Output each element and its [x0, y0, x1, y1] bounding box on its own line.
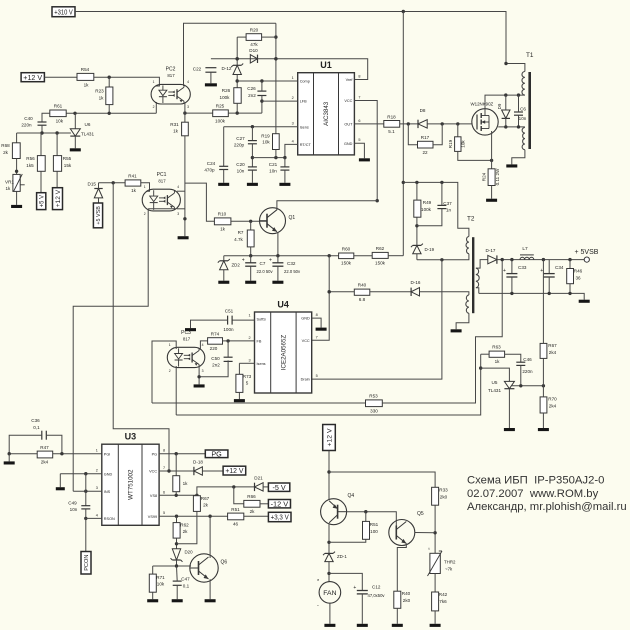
- wire C50 bottom lead: [199, 360, 228, 376]
- wire U4 GND lead: [312, 318, 321, 328]
- svg-text:R41: R41: [128, 174, 137, 179]
- wire R61 node row: [66, 112, 156, 115]
- svg-text:1: 1: [292, 76, 294, 80]
- IC U3: [96, 432, 165, 526]
- svg-text:1: 1: [169, 343, 171, 347]
- resistor R17: [418, 135, 434, 155]
- svg-text:2: 2: [248, 336, 250, 340]
- resistor R73: [236, 374, 252, 392]
- transistor Q5: [389, 511, 424, 546]
- wire R46 bottom lead: [569, 284, 571, 294]
- wire pin6 row: [159, 494, 198, 497]
- svg-text:4: 4: [292, 139, 294, 143]
- wire U3 GND row: [60, 472, 102, 475]
- wire U1 GND lead: [354, 143, 364, 158]
- wire C49 bottom lead: [84, 509, 87, 520]
- resistor R60: [339, 247, 354, 266]
- svg-text:R40: R40: [402, 591, 411, 596]
- svg-text:PGI: PGI: [104, 452, 111, 456]
- wire R41 to PC1 pin1: [141, 183, 150, 191]
- wire C47 top lead: [176, 566, 179, 581]
- wire R18 to D8: [400, 122, 418, 125]
- svg-text:-12 V: -12 V: [271, 499, 289, 508]
- capacitor C49: [68, 501, 90, 513]
- wire FAN bottom lead: [329, 603, 331, 624]
- diode D15: [94, 189, 102, 198]
- svg-text:PC2: PC2: [166, 67, 176, 73]
- wire R10 to Q1 base: [231, 220, 267, 223]
- wire R51b top lead: [365, 512, 367, 522]
- resistor R10: [214, 212, 231, 232]
- IC U4: [248, 300, 317, 394]
- svg-text:Схема ИБП IP-P350AJ2-0: Схема ИБП IP-P350AJ2-0: [467, 475, 604, 487]
- wire Q5 collector row: [415, 532, 435, 534]
- svg-text:2: 2: [144, 212, 146, 216]
- svg-text:10k: 10k: [262, 140, 270, 145]
- wire C34 top lead: [548, 260, 550, 274]
- wire C6 bottom lead: [518, 115, 520, 127]
- svg-text:22.0 50v: 22.0 50v: [257, 269, 274, 274]
- wire C24 top lead: [223, 127, 225, 167]
- ground U1 ground: [359, 158, 370, 161]
- svg-text:C36: C36: [31, 418, 40, 423]
- resistor R25: [213, 104, 229, 124]
- svg-text:C50: C50: [211, 356, 220, 361]
- svg-text:FAN: FAN: [323, 590, 336, 597]
- svg-text:R26: R26: [222, 88, 231, 93]
- capacitor C26: [247, 86, 266, 98]
- zener D12: [222, 64, 244, 75]
- svg-text:+: +: [503, 268, 506, 274]
- wire Q1 collector: [277, 201, 377, 210]
- svg-text:C22: C22: [193, 67, 202, 72]
- wire T2 sec bottom lead: [476, 288, 479, 294]
- ground PC3 ground: [194, 384, 205, 387]
- svg-text:2k0: 2k0: [440, 495, 448, 500]
- svg-text:VCC: VCC: [149, 470, 157, 474]
- wire sec return row: [479, 292, 584, 300]
- diode D9: [502, 110, 510, 118]
- wire D16 to T2 aux: [420, 292, 469, 295]
- wire U3 pin4 row: [86, 517, 102, 519]
- svg-text:1k: 1k: [183, 481, 189, 486]
- svg-text:1k: 1k: [84, 82, 90, 87]
- wire drain lead: [485, 93, 525, 108]
- svg-text:D20: D20: [185, 550, 194, 555]
- svg-text:+12 V: +12 V: [225, 466, 243, 475]
- wire D15 row: [99, 181, 126, 184]
- wire R62b bottom lead: [175, 538, 178, 549]
- svg-text:R10: R10: [218, 212, 227, 217]
- resistor R55: [53, 156, 71, 172]
- power label PG: [205, 449, 228, 458]
- capacitor C36: [31, 418, 46, 440]
- shunt regulator U6 TL431: [70, 113, 94, 148]
- svg-text:R61: R61: [54, 104, 63, 109]
- wire gate row: [427, 122, 472, 125]
- svg-text:Isens: Isens: [300, 125, 309, 129]
- wire C12 bottom lead: [361, 594, 363, 624]
- svg-text:U3: U3: [125, 432, 137, 442]
- wire U3 pin3 row: [73, 490, 102, 493]
- svg-text:-: -: [317, 603, 319, 609]
- wire C33 bottom lead: [511, 277, 513, 293]
- zener D20: [171, 549, 183, 562]
- svg-text:10n: 10n: [519, 116, 527, 121]
- wire R62b top lead: [176, 516, 178, 522]
- wire R19b top lead: [457, 124, 459, 137]
- svg-text:36: 36: [575, 276, 581, 281]
- svg-text:8: 8: [358, 75, 360, 79]
- svg-text:2: 2: [96, 469, 98, 473]
- svg-text:0,1: 0,1: [183, 584, 190, 589]
- wire PC2 pin2 lead: [155, 102, 156, 113]
- ground U4 ground: [316, 328, 327, 331]
- svg-text:U6: U6: [85, 122, 91, 127]
- zener D19: [411, 244, 423, 254]
- wire VCC feed vertical: [312, 256, 331, 341]
- svg-text:R66: R66: [247, 494, 256, 499]
- wire R67b bottom jog: [177, 511, 197, 543]
- svg-text:L7: L7: [522, 246, 528, 252]
- svg-text:7: 7: [163, 466, 165, 470]
- svg-text:1k: 1k: [6, 186, 12, 191]
- wire C51 right lead: [232, 319, 254, 321]
- svg-text:4: 4: [187, 80, 189, 84]
- svg-text:100k: 100k: [421, 207, 432, 212]
- wire PCON lead: [85, 518, 87, 551]
- svg-text:R74: R74: [211, 331, 220, 336]
- svg-text:T2: T2: [467, 216, 475, 223]
- capacitor C21: [269, 162, 290, 174]
- svg-text:2: 2: [292, 96, 294, 100]
- ground U6 ground: [70, 148, 81, 151]
- diode D8: [418, 108, 427, 128]
- capacitor C20: [236, 162, 257, 174]
- resistor R31: [170, 122, 188, 136]
- wire C6 top lead: [518, 95, 520, 112]
- resistor R40a: [354, 283, 370, 303]
- svg-text:10k: 10k: [56, 118, 64, 123]
- resistor R53: [366, 394, 383, 414]
- svg-text:C24: C24: [207, 161, 216, 166]
- svg-text:1: 1: [248, 314, 250, 318]
- svg-text:GND: GND: [104, 472, 113, 476]
- capacitor C37: [437, 201, 452, 213]
- svg-text:Comp: Comp: [300, 80, 310, 84]
- wire R19a bottom lead: [275, 150, 277, 158]
- resistor R7: [234, 230, 254, 247]
- wire R56 top lead: [40, 133, 42, 156]
- optocoupler PC1: [142, 172, 180, 216]
- ground sec ground: [579, 300, 590, 303]
- svg-text:220: 220: [210, 346, 218, 351]
- wire D12 top lead: [236, 37, 239, 65]
- svg-text:~7k: ~7k: [445, 567, 453, 572]
- wire R61 left to C40: [42, 113, 50, 122]
- svg-text:R70: R70: [548, 397, 557, 402]
- svg-text:C49: C49: [68, 501, 77, 506]
- winding T1 aux: [522, 128, 525, 150]
- svg-text:+12 V: +12 V: [55, 189, 62, 207]
- zener ZD1: [323, 552, 335, 562]
- capacitor C22: [193, 67, 217, 73]
- svg-text:4: 4: [96, 513, 98, 517]
- diode D10: [249, 48, 258, 63]
- svg-text:6: 6: [358, 119, 360, 123]
- svg-text:220n: 220n: [522, 369, 533, 374]
- svg-text:C6: C6: [520, 107, 526, 112]
- svg-text:Q1: Q1: [289, 215, 296, 221]
- wire R19b to source: [458, 151, 494, 162]
- ground C32 ground: [272, 281, 283, 284]
- winding T2 secondary: [476, 268, 479, 288]
- resistor R67b: [193, 496, 209, 512]
- wire divider row: [512, 384, 545, 387]
- wire R54 to PC2 pin1: [94, 76, 160, 87]
- capacitor C32: [269, 257, 301, 274]
- wire U3 VCC row: [159, 469, 194, 472]
- wire R70 bottom lead: [542, 413, 544, 428]
- wire C7 top lead: [250, 256, 252, 263]
- label D19: [425, 247, 435, 252]
- wire R40a to D16: [370, 291, 411, 293]
- resistor R1k: [173, 476, 188, 492]
- shunt regulator U5 TL431: [488, 380, 514, 428]
- capacitor C7: [242, 257, 274, 274]
- wire R68 to VR1: [15, 159, 18, 175]
- svg-text:22.0 50v: 22.0 50v: [284, 269, 301, 274]
- svg-text:R18: R18: [387, 114, 396, 119]
- resistor R42: [432, 592, 448, 611]
- thermistor THR2: [428, 547, 457, 576]
- wire ZD2 bottom lead: [223, 270, 225, 281]
- wire R66 to -12V box: [260, 503, 268, 505]
- wire R51b bottom lead: [329, 539, 366, 542]
- transistor Q4: [321, 493, 355, 525]
- ground C24 ground: [218, 183, 229, 186]
- wire C21 top lead: [284, 158, 286, 167]
- svg-text:WT751002: WT751002: [127, 469, 134, 500]
- power label +12V col: [53, 188, 63, 210]
- svg-text:2k0: 2k0: [403, 598, 411, 603]
- svg-text:FB: FB: [257, 340, 262, 344]
- wire C26 bottom lead: [260, 96, 263, 114]
- wire R51a to +3.3V box: [244, 515, 269, 517]
- wire C33 top lead: [511, 260, 513, 274]
- svg-text:C26: C26: [247, 86, 256, 91]
- svg-text:330: 330: [370, 408, 378, 413]
- svg-text:10n: 10n: [70, 507, 78, 512]
- wire TL431 row: [17, 131, 71, 134]
- capacitor C47: [173, 577, 190, 589]
- ground C51 ground: [185, 328, 196, 331]
- resistor R63: [489, 345, 505, 364]
- ground Q6 ground: [205, 599, 216, 602]
- svg-text:1k: 1k: [99, 96, 105, 101]
- wire C12 top row: [329, 573, 362, 590]
- svg-text:C37: C37: [443, 201, 452, 206]
- svg-text:1n: 1n: [446, 208, 452, 213]
- ground R70 ground: [538, 428, 549, 431]
- svg-text:ICE2A0565Z: ICE2A0565Z: [281, 335, 288, 371]
- wire R73 link: [238, 363, 240, 374]
- wire Vref row: [211, 57, 368, 79]
- svg-text:2: 2: [153, 105, 155, 109]
- svg-text:R42: R42: [439, 592, 448, 597]
- label D20: [185, 550, 194, 555]
- svg-text:2n2: 2n2: [248, 93, 256, 98]
- svg-text:D-19: D-19: [425, 247, 435, 252]
- svg-text:LFB: LFB: [300, 100, 307, 104]
- svg-text:0,1: 0,1: [33, 425, 40, 430]
- resistor R62b: [173, 523, 189, 539]
- wire D19 bottom lead: [416, 254, 418, 260]
- svg-text:1: 1: [153, 80, 155, 84]
- wire R7 bottom lead: [250, 247, 252, 256]
- wire R73 top lead: [239, 362, 254, 364]
- wire PC2 pin3 lead: [184, 102, 186, 122]
- svg-text:D15: D15: [88, 182, 97, 187]
- wire -5V row: [197, 485, 255, 495]
- svg-text:2n2: 2n2: [212, 363, 220, 368]
- svg-text:5: 5: [246, 381, 249, 386]
- ground FAN ground: [324, 624, 335, 627]
- wire Q4 base row: [347, 510, 397, 526]
- ground VR1 ground: [11, 205, 22, 208]
- svg-text:VS8: VS8: [150, 494, 157, 498]
- power label +5VSB flag: [93, 203, 102, 228]
- svg-text:VCC: VCC: [302, 339, 310, 343]
- svg-text:R17: R17: [421, 135, 430, 140]
- wire R70 top lead: [542, 386, 544, 397]
- resistor R19a: [261, 133, 279, 149]
- svg-text:R51: R51: [231, 507, 240, 512]
- wire R17 right lead: [433, 124, 442, 145]
- resistor R33: [432, 487, 449, 505]
- svg-text:U4: U4: [277, 300, 289, 310]
- svg-text:1: 1: [96, 449, 98, 453]
- svg-text:ZD2: ZD2: [232, 263, 241, 268]
- ground PC1 ground: [178, 236, 189, 239]
- svg-text:R55: R55: [63, 156, 72, 161]
- svg-text:R31: R31: [170, 122, 179, 127]
- wire PG row: [159, 452, 205, 455]
- wire R66 left lead: [234, 487, 244, 504]
- svg-text:100k: 100k: [215, 119, 226, 124]
- resistor R74: [208, 331, 223, 351]
- svg-text:10n: 10n: [269, 169, 277, 174]
- wire R25 right row: [228, 111, 262, 114]
- inductor L7: [520, 246, 534, 260]
- svg-text:Q5: Q5: [417, 511, 424, 517]
- svg-text:2k4: 2k4: [41, 460, 49, 465]
- wire RC row: [252, 144, 297, 159]
- svg-text:PG: PG: [152, 452, 158, 456]
- svg-text:D10: D10: [249, 48, 258, 53]
- wire C27 bottom lead: [251, 144, 254, 167]
- svg-text:R67: R67: [548, 343, 557, 348]
- wire D15 top lead: [98, 183, 100, 189]
- ground C7 ground: [245, 281, 256, 284]
- svg-text:2k4: 2k4: [549, 350, 557, 355]
- svg-text:1k: 1k: [173, 129, 179, 134]
- svg-text:R7: R7: [238, 230, 244, 235]
- wire R26 bottom lead: [236, 103, 238, 113]
- svg-text:1k5: 1k5: [26, 163, 34, 168]
- fan motor FAN: [317, 579, 341, 609]
- svg-text:THR2: THR2: [444, 560, 456, 565]
- wire R55 to +12V box: [56, 171, 58, 187]
- svg-text:T1: T1: [526, 52, 534, 59]
- wire HV drop vertical: [402, 12, 405, 256]
- svg-text:100n: 100n: [223, 327, 234, 332]
- wire R63 right to C46: [505, 354, 521, 362]
- ground U5 ground: [504, 428, 515, 431]
- svg-text:R67: R67: [201, 496, 210, 501]
- wire U1 OUT row: [354, 123, 383, 125]
- svg-text:R63: R63: [492, 345, 501, 350]
- svg-text:100k: 100k: [220, 95, 231, 100]
- ground R71 ground: [147, 599, 158, 602]
- svg-text:D-12: D-12: [222, 66, 232, 71]
- wire PC3 pin2 lead: [175, 366, 177, 415]
- wire R40b bottom lead: [396, 608, 398, 624]
- wire R25 left lead: [183, 111, 213, 114]
- wire R46 top lead: [569, 260, 571, 269]
- wire Q6 base row: [153, 564, 191, 567]
- svg-text:3: 3: [96, 486, 98, 490]
- svg-text:+: +: [269, 257, 272, 263]
- wire R1k bottom lead: [175, 492, 177, 496]
- wire Q4 collector: [327, 524, 330, 553]
- wire Isens row: [224, 125, 298, 128]
- wire LFB row: [262, 100, 298, 102]
- svg-text:1: 1: [144, 185, 146, 189]
- svg-text:R73: R73: [243, 374, 252, 379]
- wire +310V rail: [75, 10, 525, 72]
- power label +310V: [52, 7, 75, 17]
- wire fan +12 rail: [327, 451, 330, 500]
- svg-text:R24: R24: [482, 172, 487, 181]
- svg-text:7: 7: [358, 96, 360, 100]
- svg-text:8: 8: [163, 449, 165, 453]
- wire T1 aux return: [512, 150, 525, 165]
- resistor R40b: [394, 591, 411, 608]
- svg-text:1k: 1k: [220, 227, 226, 232]
- svg-text:+: +: [353, 585, 356, 591]
- svg-text:1k: 1k: [131, 188, 137, 193]
- power label PCON: [81, 552, 91, 575]
- svg-text:R51: R51: [370, 522, 379, 527]
- wire T2 aux return: [456, 313, 469, 329]
- svg-text:5: 5: [358, 138, 360, 142]
- svg-text:C20: C20: [236, 162, 245, 167]
- svg-text:R60: R60: [342, 247, 351, 252]
- winding T2 aux: [466, 295, 469, 313]
- transistor Q6: [190, 554, 228, 582]
- svg-text:02.07.2007 www.ROM.by: 02.07.2007 www.ROM.by: [467, 488, 599, 500]
- svg-text:+: +: [540, 268, 543, 274]
- wire aux supply row: [224, 254, 339, 257]
- svg-text:U5: U5: [492, 380, 498, 385]
- svg-text:R71: R71: [156, 575, 165, 580]
- svg-text:D-17: D-17: [486, 248, 496, 253]
- svg-text:R20: R20: [250, 27, 259, 32]
- wire D12 bottom lead: [236, 75, 239, 88]
- svg-text:C34: C34: [555, 265, 564, 270]
- wire fan top row: [329, 472, 435, 487]
